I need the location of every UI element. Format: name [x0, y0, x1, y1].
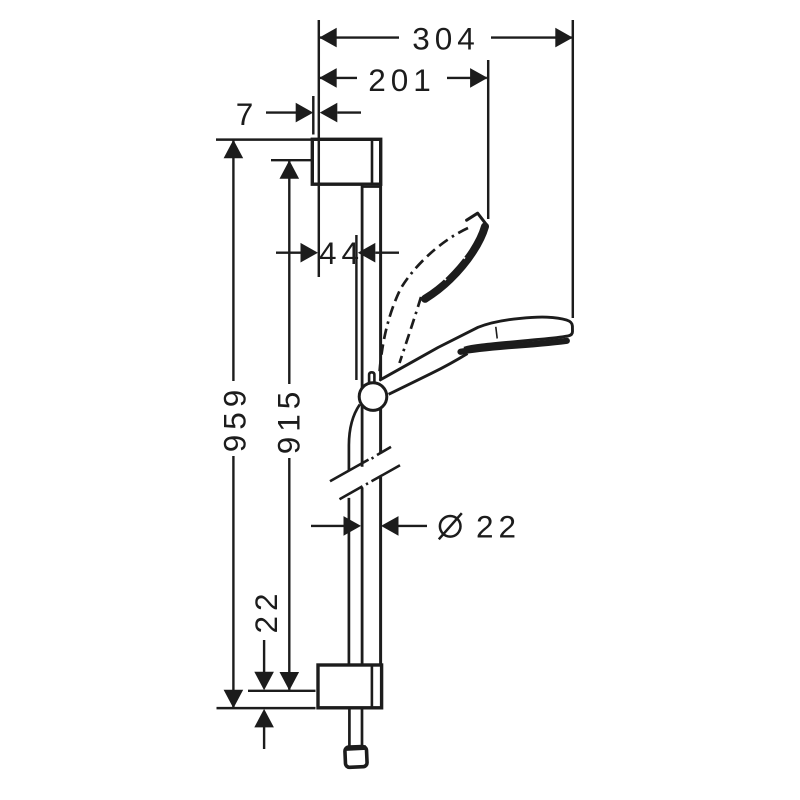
rail	[361, 185, 381, 666]
phantom blob white nicks	[460, 255, 466, 259]
svg-text:22: 22	[248, 588, 284, 633]
phantom handle right outline (dashed)	[400, 297, 422, 363]
extension line 44	[355, 235, 357, 380]
dimension 22 leaders	[263, 640, 265, 749]
solid hand shower outline	[380, 317, 573, 380]
hose	[349, 405, 362, 747]
extension line 915/22 bottom	[248, 690, 316, 692]
phantom head cap	[467, 213, 486, 224]
extension tick 7	[312, 96, 314, 135]
bottom wall bracket	[318, 665, 382, 708]
extension line 201	[487, 60, 489, 219]
break mark upper	[330, 447, 391, 481]
dimension 304	[320, 36, 572, 38]
dimension 44	[276, 251, 399, 253]
svg-text:201: 201	[368, 62, 436, 98]
extension line wall plane	[318, 20, 320, 277]
svg-text:44: 44	[319, 235, 364, 271]
extension line 304	[572, 20, 574, 318]
phantom handle left outline (dashed)	[380, 228, 469, 373]
diameter symbol circle	[440, 516, 461, 537]
svg-text:7: 7	[236, 96, 259, 132]
head joint tick	[496, 327, 497, 339]
slider knob stub	[369, 372, 374, 384]
svg-text:22: 22	[476, 508, 521, 544]
svg-text:959: 959	[217, 385, 253, 453]
break mark lower	[340, 465, 401, 499]
phantom spray blob	[425, 227, 485, 299]
diameter symbol slash	[439, 513, 462, 539]
extension line 915 top	[271, 159, 311, 161]
hose end connector cap	[345, 746, 367, 767]
svg-text:915: 915	[271, 387, 307, 455]
solid head spray face	[461, 341, 567, 352]
solid hand shower handle bottom edge	[389, 354, 468, 395]
svg-text:304: 304	[412, 21, 480, 57]
top wall bracket	[312, 139, 380, 184]
dimension 959 vertical	[232, 140, 234, 708]
dimension 201	[320, 77, 487, 79]
solid hand shower body fill	[378, 317, 572, 394]
extension line 959 top	[216, 138, 312, 140]
dimension dia 22	[311, 525, 427, 527]
dimension 915 vertical	[288, 161, 290, 690]
extension line 959 bottom	[217, 707, 316, 709]
slider circle	[359, 383, 387, 411]
dimension 7	[266, 111, 361, 113]
